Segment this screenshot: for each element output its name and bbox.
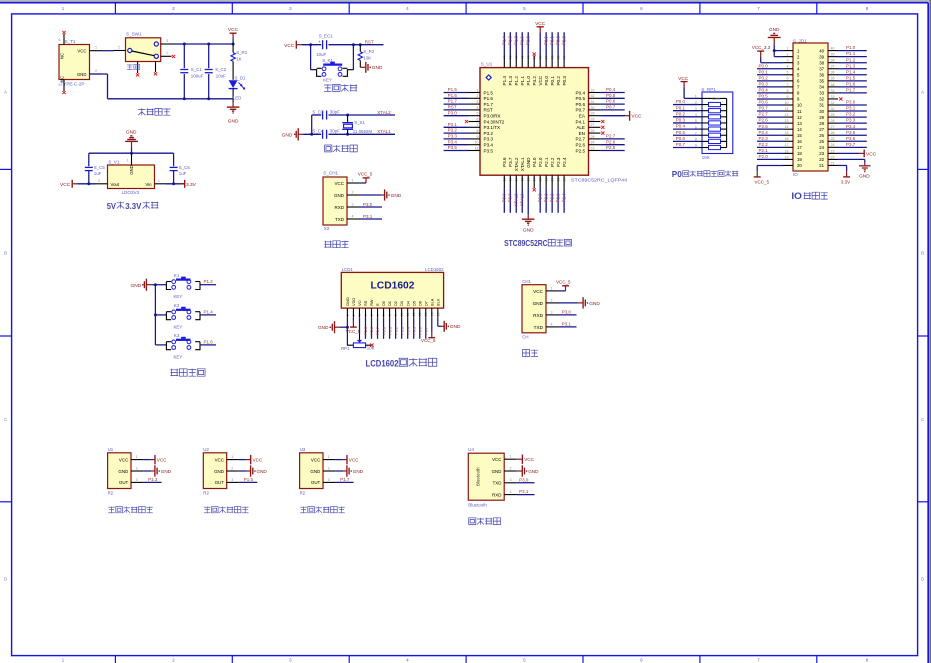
- svg-text:EN: EN: [579, 131, 585, 136]
- svg-text:VCC: VCC: [284, 43, 295, 49]
- svg-text:P1.6: P1.6: [846, 81, 856, 86]
- wire / net label P1.6: [200, 339, 216, 345]
- svg-text:30: 30: [591, 106, 595, 110]
- svg-text:4: 4: [787, 65, 789, 69]
- wires and net labels, S_U1 right side: [600, 87, 624, 150]
- svg-text:P2.4: P2.4: [562, 157, 567, 167]
- infrared module U3: [300, 447, 336, 495]
- connector S_CH1 (download port): [323, 171, 359, 231]
- svg-text:VCC: VCC: [334, 181, 344, 186]
- svg-text:34: 34: [819, 85, 824, 90]
- svg-text:1uF: 1uF: [94, 171, 102, 176]
- svg-text:29: 29: [831, 113, 835, 117]
- svg-text:10K: 10K: [702, 155, 711, 160]
- wire GND to JD1 pins 1,2: [773, 45, 783, 57]
- svg-text:P2.4: P2.4: [562, 193, 567, 202]
- svg-text:30: 30: [831, 107, 835, 111]
- caption: 5V转3.3V电路 (5V to 3.3V circuit): [107, 201, 159, 211]
- svg-text:VCC_5: VCC_5: [421, 338, 436, 343]
- svg-text:P3.2: P3.2: [484, 131, 494, 136]
- svg-text:P3.5: P3.5: [484, 148, 494, 153]
- svg-text:25: 25: [831, 137, 835, 141]
- svg-text:VCC: VCC: [253, 458, 263, 463]
- svg-text:P3.0: P3.0: [562, 310, 572, 315]
- svg-text:32: 32: [819, 97, 824, 102]
- svg-text:U1: U1: [108, 447, 114, 452]
- capacitor S_EC1 10uF (electrolytic): [316, 34, 333, 57]
- svg-text:KEY: KEY: [174, 324, 183, 329]
- svg-text:VCC_5: VCC_5: [358, 171, 373, 176]
- svg-text:P0.7: P0.7: [676, 142, 686, 147]
- svg-text:P2.0: P2.0: [538, 193, 543, 202]
- svg-text:P0.0: P0.0: [544, 76, 549, 86]
- svg-text:21: 21: [831, 161, 835, 165]
- svg-text:LCD1602: LCD1602: [425, 267, 444, 272]
- svg-text:35: 35: [831, 77, 835, 81]
- svg-text:KEY: KEY: [174, 294, 183, 299]
- svg-text:33: 33: [591, 88, 595, 92]
- svg-text:TXD: TXD: [493, 481, 502, 486]
- svg-text:3: 3: [328, 478, 330, 482]
- svg-text:VCC: VCC: [535, 21, 546, 27]
- svg-text:P2.7: P2.7: [759, 112, 769, 117]
- svg-text:RP1: RP1: [341, 346, 350, 351]
- svg-text:20: 20: [797, 163, 802, 168]
- svg-text:P1.1: P1.1: [520, 76, 525, 86]
- connector S_T1 TYPE-C-2P: [59, 34, 102, 91]
- caption: P0口上拉电阻电路 (P0 pull-up): [672, 169, 738, 179]
- svg-text:2: 2: [118, 45, 120, 49]
- svg-text:P3.0/RX: P3.0/RX: [484, 114, 501, 119]
- svg-text:18: 18: [785, 149, 789, 153]
- no-connect X S_U1 top pin 39 (P4.2): [533, 52, 536, 55]
- svg-text:P2.2: P2.2: [550, 193, 555, 202]
- svg-text:P0.0: P0.0: [381, 326, 386, 335]
- VCC power port (U1): [143, 455, 167, 464]
- svg-text:U3: U3: [300, 447, 306, 452]
- svg-text:2: 2: [477, 94, 479, 98]
- svg-text:4: 4: [352, 214, 354, 218]
- wire T1 VCC to switch: [102, 50, 114, 52]
- power port VCC_5 (LCD backlight BLA): [421, 317, 436, 343]
- svg-text:3: 3: [166, 39, 168, 43]
- svg-text:P0.3: P0.3: [759, 81, 769, 86]
- svg-text:BLK: BLK: [435, 298, 440, 306]
- svg-text:P1.0: P1.0: [526, 76, 531, 86]
- ground GND (above LDO): [125, 130, 138, 148]
- caption: LCD1602显示模块 (LCD display module): [366, 358, 437, 368]
- svg-text:P4.1: P4.1: [576, 119, 586, 124]
- svg-text:RST: RST: [365, 39, 374, 44]
- potentiometer RP1 10K (LCD contrast): [341, 317, 375, 351]
- svg-text:+: +: [319, 40, 321, 44]
- svg-text:P3.4: P3.4: [448, 139, 458, 144]
- ground GND (serial pin2): [558, 297, 600, 308]
- svg-text:P2.1: P2.1: [759, 148, 769, 153]
- svg-text:P0.4: P0.4: [606, 87, 616, 92]
- S_U1 left pin names and numbers: [469, 88, 505, 153]
- svg-text:P1.2: P1.2: [204, 279, 214, 284]
- svg-text:GND: GND: [528, 469, 539, 474]
- svg-text:S_C6: S_C6: [179, 165, 191, 170]
- svg-text:35: 35: [819, 79, 824, 84]
- svg-text:39: 39: [831, 53, 835, 57]
- VCC power port (EA pin): [600, 111, 642, 121]
- svg-text:CH1: CH1: [522, 279, 531, 284]
- svg-text:P0.1: P0.1: [550, 76, 555, 86]
- svg-text:P3.0: P3.0: [448, 110, 458, 115]
- svg-text:GND: GND: [769, 27, 780, 33]
- svg-text:P3.2: P3.2: [448, 128, 458, 133]
- svg-text:1K: 1K: [236, 56, 241, 61]
- svg-text:K3: K3: [174, 333, 180, 338]
- svg-text:GND: GND: [131, 283, 142, 289]
- svg-text:P1.5: P1.5: [484, 90, 494, 95]
- svg-text:P3.0: P3.0: [846, 100, 856, 105]
- LED S_D1: [229, 75, 246, 100]
- svg-text:K2: K2: [174, 303, 180, 308]
- svg-text:VDD: VDD: [351, 298, 356, 306]
- svg-text:6: 6: [477, 117, 479, 121]
- S_U1 right pin names and numbers: [576, 88, 601, 153]
- svg-text:TXD: TXD: [335, 217, 345, 222]
- svg-text:Bluetooth: Bluetooth: [468, 503, 487, 508]
- svg-text:OUT: OUT: [215, 480, 225, 485]
- no-connect X RP1 right pin: [370, 344, 373, 347]
- wire / net label P1.2: [200, 279, 216, 285]
- svg-text:S_C3: S_C3: [312, 109, 324, 114]
- capacitor S_C5 1uF: [85, 165, 106, 184]
- svg-text:VCC: VCC: [157, 458, 167, 463]
- svg-text:23: 23: [831, 149, 835, 153]
- svg-text:P0.0: P0.0: [676, 99, 686, 104]
- caption: 按键电路 (button circuit): [170, 369, 205, 376]
- svg-text:GND: GND: [129, 165, 134, 175]
- svg-text:17: 17: [797, 145, 802, 150]
- net label XTAL2: [377, 110, 391, 115]
- svg-text:3.3V: 3.3V: [186, 182, 197, 188]
- wire VCC rail top (power circuit): [173, 38, 235, 45]
- ground GND (LCD left): [318, 321, 340, 333]
- svg-text:P4.2: P4.2: [532, 76, 537, 86]
- svg-text:VCC: VCC: [228, 27, 239, 33]
- svg-text:29: 29: [819, 115, 824, 120]
- svg-text:S_C2: S_C2: [215, 67, 227, 72]
- VCC power port (U3): [335, 455, 359, 464]
- svg-text:2: 2: [231, 466, 233, 470]
- svg-text:P3.0: P3.0: [519, 477, 529, 482]
- svg-text:GND: GND: [450, 324, 461, 330]
- svg-text:RS: RS: [363, 300, 368, 306]
- svg-text:P2.3: P2.3: [556, 193, 561, 202]
- svg-text:P3.1: P3.1: [846, 106, 856, 111]
- svg-text:B: B: [921, 251, 924, 256]
- svg-text:P3.5: P3.5: [846, 130, 856, 135]
- svg-text:P2.2: P2.2: [550, 157, 555, 167]
- svg-text:40: 40: [831, 47, 835, 51]
- svg-text:VCC: VCC: [631, 114, 642, 120]
- svg-text:P0.4: P0.4: [405, 326, 410, 335]
- no-connect X on SW1 bottom pin b: [154, 72, 157, 75]
- svg-text:26: 26: [831, 131, 835, 135]
- svg-text:D0: D0: [381, 300, 386, 306]
- caption: STC89C52RC主芯片 (main chip): [504, 238, 571, 248]
- no-connect X on T1 pin 6 bottom: [62, 91, 65, 94]
- svg-text:GND: GND: [523, 227, 534, 233]
- wires and net labels P0.0-P0.7 (RP1): [673, 99, 699, 147]
- svg-text:P0.5: P0.5: [676, 130, 686, 135]
- svg-text:P0.0: P0.0: [544, 36, 549, 45]
- svg-text:GND: GND: [589, 301, 600, 307]
- svg-text:P0.2: P0.2: [759, 75, 769, 80]
- svg-text:2: 2: [328, 466, 330, 470]
- svg-text:10: 10: [785, 101, 789, 105]
- svg-text:1: 1: [328, 455, 330, 459]
- regulator S_V1 LDO3V3: [96, 153, 167, 195]
- svg-text:A: A: [921, 90, 924, 95]
- svg-text:P0.3: P0.3: [562, 36, 567, 45]
- VCC power port (U4): [517, 455, 535, 464]
- svg-text:KEY: KEY: [174, 354, 183, 359]
- infrared module U2: [203, 447, 239, 495]
- svg-text:P2.6: P2.6: [576, 143, 586, 148]
- svg-text:14: 14: [797, 127, 802, 132]
- svg-text:P2.6: P2.6: [606, 139, 616, 144]
- net label RST (reset): [365, 39, 374, 44]
- svg-text:P3.0: P3.0: [363, 202, 373, 207]
- caption: 电源电路 (power circuit): [138, 108, 170, 115]
- svg-text:11: 11: [785, 107, 789, 111]
- svg-text:P0: P0: [672, 169, 682, 179]
- svg-text:P0.2: P0.2: [676, 111, 686, 116]
- power port VCC_5 (JD1 pin 20): [754, 165, 783, 184]
- svg-text:STC89C52RC_LQFP44: STC89C52RC_LQFP44: [571, 177, 628, 182]
- svg-text:S_C4: S_C4: [312, 129, 324, 134]
- no-connect X S_U1 right pins 28/27/26: [601, 120, 604, 135]
- svg-text:38: 38: [819, 60, 824, 65]
- svg-text:LED: LED: [233, 96, 242, 101]
- svg-text:VCC: VCC: [524, 457, 534, 462]
- key K3 KEY: [166, 333, 200, 359]
- wires and net labels, S_U1 top side: [502, 32, 567, 55]
- svg-text:P1.3: P1.3: [508, 36, 513, 45]
- svg-text:P1.7: P1.7: [340, 477, 350, 482]
- svg-text:P2.1: P2.1: [544, 157, 549, 167]
- svg-text:9: 9: [477, 135, 479, 139]
- svg-text:2: 2: [787, 53, 789, 57]
- svg-text:28: 28: [819, 121, 824, 126]
- svg-text:S_C1: S_C1: [191, 67, 203, 72]
- ground GND (JD1 top): [768, 27, 781, 44]
- svg-text:S_EC1: S_EC1: [319, 34, 333, 39]
- wire VCC to C5/Vout: [78, 182, 96, 185]
- svg-text:6: 6: [59, 38, 61, 42]
- svg-text:P0.1: P0.1: [759, 69, 769, 74]
- svg-text:36: 36: [831, 71, 835, 75]
- svg-text:GND: GND: [526, 157, 531, 168]
- bluetooth module U4: [468, 447, 517, 508]
- svg-text:P1.2: P1.2: [514, 76, 519, 86]
- svg-text:26: 26: [591, 129, 595, 133]
- svg-text:P2.7: P2.7: [375, 327, 380, 335]
- svg-text:P3.4: P3.4: [484, 143, 494, 148]
- svg-text:P0.3: P0.3: [399, 327, 404, 335]
- svg-text:P1.0: P1.0: [846, 45, 856, 50]
- svg-text:P1.5: P1.5: [448, 87, 458, 92]
- svg-text:P2.5: P2.5: [759, 124, 769, 129]
- svg-text:P0.1: P0.1: [387, 327, 392, 335]
- svg-text:3.3V: 3.3V: [841, 179, 850, 184]
- svg-text:P1.2: P1.2: [846, 57, 856, 62]
- svg-text:22: 22: [819, 157, 824, 162]
- svg-text:P3.2: P3.2: [846, 112, 856, 117]
- svg-text:30pF: 30pF: [330, 129, 340, 134]
- capacitor S_C3 30pF: [312, 109, 340, 119]
- svg-text:4: 4: [477, 106, 479, 110]
- svg-text:1: 1: [510, 455, 512, 459]
- svg-text:P3.1: P3.1: [519, 489, 529, 494]
- power port VCC_5 (LCD VDD): [346, 317, 361, 334]
- wires and net labels, S_U1 bottom side: [502, 188, 567, 213]
- svg-text:1: 1: [477, 88, 479, 92]
- svg-text:P3.1: P3.1: [448, 122, 458, 127]
- VCC power port (power circuit): [228, 27, 239, 38]
- svg-text:1: 1: [231, 455, 233, 459]
- svg-text:P1.5: P1.5: [244, 477, 254, 482]
- svg-text:5: 5: [477, 112, 479, 116]
- svg-text:GND: GND: [214, 469, 224, 474]
- svg-text:30pF: 30pF: [330, 109, 340, 114]
- caption: 晶振电路 (crystal circuit): [325, 145, 358, 152]
- ground GND (buttons): [131, 279, 152, 291]
- power port 3.3V (JD1 pin 21): [838, 165, 850, 184]
- power port VCC_5 (download port pin1): [358, 171, 373, 183]
- svg-text:P3.6: P3.6: [502, 157, 507, 167]
- wire / net label P3.1 (serial): [558, 322, 577, 327]
- svg-text:13: 13: [785, 119, 789, 123]
- svg-text:3: 3: [551, 310, 553, 314]
- svg-text:VCC: VCC: [215, 457, 224, 462]
- svg-text:15: 15: [797, 133, 802, 138]
- caption: 下载口 (download port): [324, 241, 348, 248]
- svg-text:1: 1: [695, 95, 697, 99]
- svg-text:3: 3: [787, 59, 789, 63]
- svg-text:P1.7: P1.7: [484, 102, 494, 107]
- wire crystal top rail: [312, 114, 395, 135]
- svg-text:11.0592M: 11.0592M: [353, 129, 373, 134]
- wire reset top rail: [302, 43, 384, 46]
- svg-text:1: 1: [166, 51, 168, 55]
- caption: 串口 (serial port): [522, 350, 538, 357]
- svg-text:NC: NC: [60, 53, 65, 59]
- svg-text:28: 28: [591, 117, 595, 121]
- capacitor S_C6 1uF: [170, 165, 191, 184]
- VCC power port (chip top): [535, 21, 546, 56]
- svg-text:P0.7: P0.7: [759, 106, 769, 111]
- svg-text:6: 6: [59, 83, 61, 87]
- svg-text:P1.4: P1.4: [502, 36, 507, 45]
- svg-text:XTAL1: XTAL1: [520, 193, 525, 206]
- svg-text:U2: U2: [203, 447, 209, 452]
- svg-text:5: 5: [787, 71, 789, 75]
- svg-text:Com: Com: [712, 97, 720, 101]
- svg-text:GND: GND: [126, 130, 137, 136]
- wire / net label P1.3 (U1): [143, 477, 162, 482]
- svg-text:BLA: BLA: [429, 298, 434, 306]
- LCD data wires and net labels: [363, 317, 428, 339]
- svg-text:KEY: KEY: [323, 78, 332, 83]
- svg-text:XTAL1: XTAL1: [377, 129, 391, 134]
- svg-text:P0.5: P0.5: [759, 94, 769, 99]
- wire / net label P1.4: [200, 309, 216, 315]
- svg-text:29: 29: [591, 112, 595, 116]
- LCD module LCD1 LCD1602: [341, 267, 444, 317]
- svg-text:16: 16: [797, 139, 802, 144]
- crystal S_X1 11.0592M: [342, 115, 372, 134]
- svg-text:GND: GND: [334, 193, 345, 198]
- svg-text:GND: GND: [492, 469, 502, 474]
- svg-text:D: D: [921, 577, 924, 582]
- S_U1 bottom pin names and numbers: [502, 157, 567, 188]
- svg-text:GND: GND: [118, 469, 128, 474]
- svg-text:27: 27: [831, 125, 835, 129]
- svg-text:23: 23: [591, 146, 595, 150]
- svg-text:P2.6: P2.6: [759, 118, 769, 123]
- svg-text:LCD1602: LCD1602: [371, 280, 415, 292]
- svg-text:S_X1: S_X1: [354, 120, 365, 125]
- svg-text:S_R2: S_R2: [363, 49, 375, 54]
- svg-text:S_T1: S_T1: [65, 39, 76, 44]
- svg-text:S_U1: S_U1: [481, 61, 493, 66]
- capacitor S_C4 30pF: [312, 129, 340, 139]
- svg-text:10uF: 10uF: [216, 74, 226, 79]
- svg-text:R2: R2: [203, 490, 209, 495]
- svg-text:4: 4: [510, 490, 512, 494]
- svg-text:25: 25: [819, 139, 824, 144]
- svg-text:RST: RST: [484, 108, 493, 113]
- svg-text:24: 24: [591, 141, 595, 145]
- svg-text:1: 1: [551, 286, 553, 290]
- no-connect X S_U1 bottom pin 17 (P4.0): [533, 188, 536, 191]
- ground GND (U2): [239, 465, 268, 476]
- ground GND (U4): [517, 465, 539, 476]
- svg-text:39: 39: [819, 54, 824, 59]
- wire / net label P1.7 (U3): [335, 477, 354, 482]
- svg-text:3.3V: 3.3V: [125, 201, 141, 211]
- caption: IO拓展口 (IO expansion port): [791, 191, 827, 201]
- svg-text:14: 14: [785, 125, 789, 129]
- svg-text:2: 2: [136, 466, 138, 470]
- svg-text:P0.5: P0.5: [576, 96, 586, 101]
- svg-text:36: 36: [819, 72, 824, 77]
- svg-text:P0.4: P0.4: [759, 88, 769, 93]
- svg-text:XTAL2: XTAL2: [514, 157, 519, 171]
- svg-text:1: 1: [95, 46, 97, 50]
- svg-text:P0.6: P0.6: [676, 136, 686, 141]
- svg-text:33: 33: [831, 89, 835, 93]
- svg-text:VCC: VCC: [492, 457, 501, 462]
- svg-text:D5: D5: [411, 301, 416, 306]
- no-connect X on T1 pin 6 top: [62, 31, 65, 34]
- svg-text:P2.4: P2.4: [759, 130, 769, 135]
- svg-text:LCD1602: LCD1602: [366, 358, 399, 368]
- svg-text:7: 7: [787, 83, 789, 87]
- svg-text:VO: VO: [357, 300, 362, 306]
- svg-text:P4.0: P4.0: [532, 157, 537, 167]
- svg-text:S_SW1: S_SW1: [126, 32, 142, 37]
- no-connect X JD1 pin 32: [839, 97, 842, 100]
- svg-text:17: 17: [785, 143, 789, 147]
